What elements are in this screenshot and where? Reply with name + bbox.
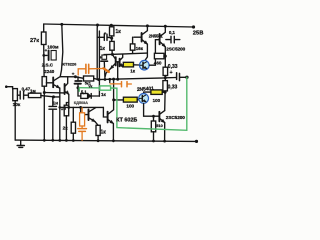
input terminal xyxy=(5,85,8,88)
wire rail drop x97 xyxy=(96,25,98,80)
wire rail drop to Q1 collector xyxy=(60,24,63,76)
wire mid wire to VAS area xyxy=(60,106,104,108)
transistor Q1 2SC2240 xyxy=(46,82,52,84)
green annotation group xyxy=(79,77,187,130)
diode VD1 xyxy=(88,94,91,99)
transistor T1 xyxy=(115,57,117,65)
svg-text:2к: 2к xyxy=(63,125,69,131)
wire y54 xyxy=(107,53,148,55)
node mid bus dots xyxy=(97,78,119,82)
svg-text:КД503А: КД503А xyxy=(74,100,88,105)
wire VT2 to Q6 base xyxy=(144,104,159,117)
wire T-base down xyxy=(117,62,119,80)
node VAS top xyxy=(111,53,114,56)
capacitor C4 bias xyxy=(97,36,103,38)
resistor R19 xyxy=(75,77,83,79)
transistor Q2 xyxy=(64,84,66,94)
transistor VT2 blue circled xyxy=(139,94,149,104)
resistor R2 10k xyxy=(13,89,18,101)
capacitor C9 orange xyxy=(78,69,85,75)
svg-text:КТ3226: КТ3226 xyxy=(63,62,78,67)
wire green feedback left xyxy=(79,87,99,89)
wire VT1 to driver column xyxy=(150,40,159,65)
resistor R1 27k xyxy=(43,24,45,32)
capacitor C10 orange feedback xyxy=(110,83,121,85)
resistor R12 0.33 lower xyxy=(163,81,168,91)
wire parallel drop x99 xyxy=(98,31,100,96)
wire R12 to Q6 collector xyxy=(164,92,166,110)
svg-text:1б: 1б xyxy=(61,106,66,111)
node bottom rail dots xyxy=(43,139,166,143)
svg-text:2240: 2240 xyxy=(44,69,55,74)
transistor VT1 blue circled xyxy=(140,60,150,70)
svg-text:2SC5200: 2SC5200 xyxy=(166,115,185,120)
resistor R10 460 xyxy=(154,53,164,59)
svg-text:2SC5200: 2SC5200 xyxy=(166,46,185,51)
svg-text:+: + xyxy=(72,71,75,76)
capacitor C2 0.47 xyxy=(17,94,19,96)
svg-text:0,1: 0,1 xyxy=(169,30,176,35)
node input junction xyxy=(52,95,55,98)
transistor Q6 2SC5200 lower output xyxy=(158,112,160,122)
svg-text:27к: 27к xyxy=(30,38,39,44)
resistor R3 1M xyxy=(28,93,41,97)
node rail junction dots xyxy=(60,23,167,28)
svg-text:2N5551: 2N5551 xyxy=(149,34,164,39)
svg-text:10к: 10к xyxy=(13,102,21,108)
svg-text:2N5401: 2N5401 xyxy=(137,86,155,93)
resistor R6 1k lower xyxy=(110,41,114,50)
capacitor C11 orange xyxy=(81,126,83,128)
svg-text:1к: 1к xyxy=(100,46,106,52)
svg-text:+: + xyxy=(104,31,107,36)
svg-text:5к1: 5к1 xyxy=(85,81,91,85)
svg-text:0,33: 0,33 xyxy=(168,84,178,90)
wire stub to orange cap xyxy=(109,79,111,82)
node +25V terminal xyxy=(192,25,195,28)
wire input xyxy=(6,87,12,89)
svg-text:1к: 1к xyxy=(116,29,122,35)
orange arrow annotation xyxy=(103,68,108,72)
transistor Q5 predriver xyxy=(81,107,88,114)
resistor R5 1k upper xyxy=(110,25,112,27)
wire VAS collector line xyxy=(60,76,75,78)
svg-text:1н: 1н xyxy=(53,100,58,105)
capacitor C7 0.1 xyxy=(166,39,170,41)
node VAS xyxy=(74,75,77,78)
orange annotation group xyxy=(78,64,132,140)
svg-text:1м: 1м xyxy=(30,89,36,94)
resistor R15 1k xyxy=(96,125,100,135)
capacitor C1 100u electrolytic xyxy=(42,54,45,57)
svg-text:100м: 100м xyxy=(47,44,59,49)
node output terminal xyxy=(185,76,188,79)
node A feedback xyxy=(77,86,80,89)
svg-text:100: 100 xyxy=(126,104,134,109)
transistor Q3 upper driver xyxy=(141,33,143,42)
wire ground bus bottom rail xyxy=(15,140,196,141)
resistor R13 yellow 100 right xyxy=(151,90,162,95)
svg-text:КТ 602Б: КТ 602Б xyxy=(116,118,137,124)
resistor R9 yellow 1k xyxy=(122,64,125,66)
transistor Q7 KT602B xyxy=(103,107,107,117)
resistor R16 xyxy=(72,107,74,122)
svg-text:460: 460 xyxy=(154,60,162,65)
resistor R4 2k xyxy=(66,103,68,106)
node divider xyxy=(43,91,46,94)
svg-text:16к: 16к xyxy=(136,46,144,51)
wire input junction to emitter xyxy=(54,96,60,98)
capacitor C3 1n xyxy=(52,97,54,106)
resistor R11 0.33 upper xyxy=(163,67,168,75)
transistor Q4 2SC5200 upper output xyxy=(159,34,161,44)
resistor R8 16k xyxy=(132,37,134,44)
capacitor C5 electrolytic xyxy=(104,54,106,56)
svg-text:510: 510 xyxy=(156,124,162,128)
svg-text:1к: 1к xyxy=(101,92,107,97)
wire top +25V rail xyxy=(44,24,194,27)
svg-text:100: 100 xyxy=(153,98,161,103)
wire Q2 base from divider xyxy=(44,92,64,94)
resistor R7 5.1 xyxy=(81,94,88,99)
wire mid output bus xyxy=(97,78,165,80)
resistor R20 510 xyxy=(153,116,155,121)
svg-text:1к: 1к xyxy=(101,130,107,136)
resistor R14 yellow 100 left xyxy=(114,99,124,101)
svg-text:25В: 25В xyxy=(193,31,204,37)
svg-text:2.S.C: 2.S.C xyxy=(42,63,54,68)
node bottom-right terminal xyxy=(195,140,198,143)
resistor R21 divider xyxy=(42,77,46,87)
svg-text:+: + xyxy=(170,70,173,76)
capacitor C6 electrolytic xyxy=(77,77,79,80)
node bias divider xyxy=(110,37,113,40)
svg-text:+: + xyxy=(45,48,48,53)
node output xyxy=(164,76,167,79)
resistor R18 green 1k xyxy=(100,86,111,90)
node 460 xyxy=(164,55,167,58)
svg-text:1к: 1к xyxy=(130,68,136,73)
wire green feedback right xyxy=(111,77,187,130)
resistor R17 orange xyxy=(81,108,83,113)
svg-text:+: + xyxy=(99,55,102,60)
svg-text:5,1: 5,1 xyxy=(81,89,87,94)
ground xyxy=(20,140,22,145)
node emitter join xyxy=(164,91,167,94)
capacitor C8 output electrolytic xyxy=(165,77,176,79)
transistor T2 xyxy=(119,59,121,67)
